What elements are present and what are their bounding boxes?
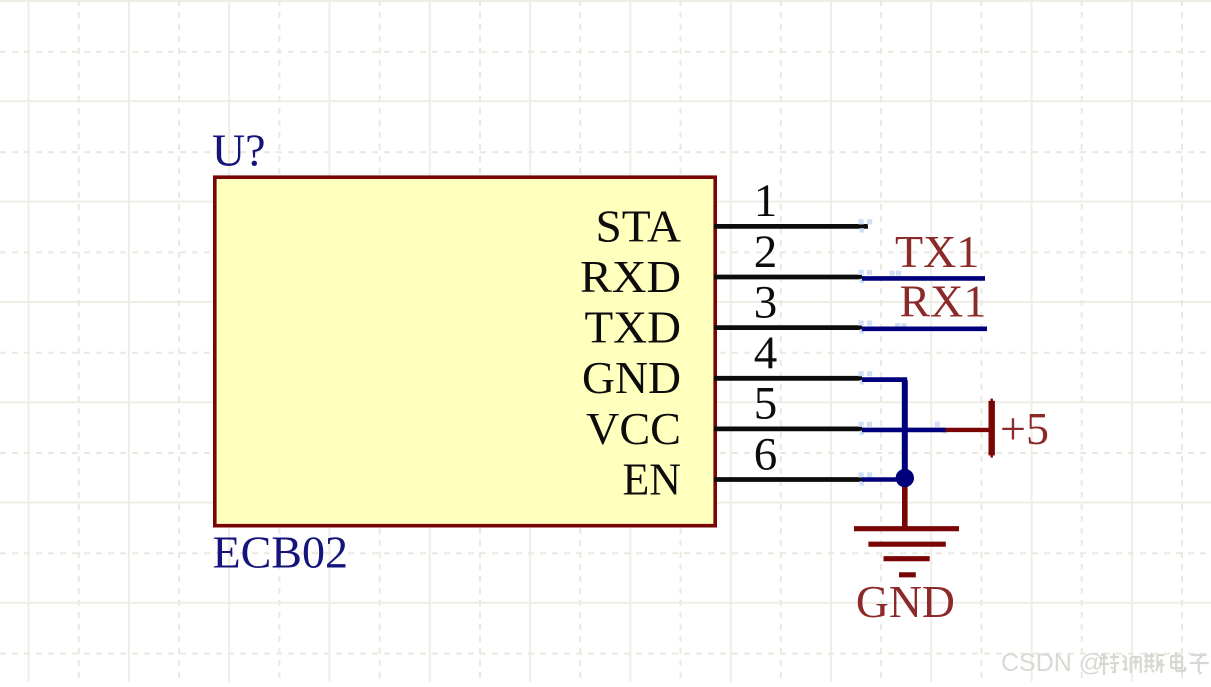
- svg-text:EN: EN: [623, 453, 682, 504]
- wire end marker VCC to +5: [935, 422, 940, 427]
- pin 6 wire: [714, 477, 862, 482]
- svg-text:RX1: RX1: [900, 276, 987, 327]
- svg-text:+5: +5: [1000, 403, 1049, 454]
- svg-text:TXD: TXD: [585, 302, 682, 353]
- component U? body (ECB02 module): [215, 177, 715, 526]
- junction dot: [896, 469, 914, 487]
- pin 4 wire: [714, 376, 862, 381]
- wire end marker pin 2: [859, 270, 864, 275]
- wire mid marker net TX1: [890, 271, 895, 276]
- wire end marker pin 3: [859, 320, 864, 325]
- ground symbol bar 3: [884, 556, 930, 561]
- svg-text:3: 3: [754, 276, 778, 328]
- power port +5 bar: [989, 401, 995, 456]
- pin 3 wire: [714, 325, 862, 330]
- svg-text:2: 2: [754, 226, 778, 278]
- svg-text:GND: GND: [856, 576, 955, 627]
- wire EN pin 6 to junction: [862, 477, 905, 482]
- svg-text:GND: GND: [582, 352, 681, 403]
- svg-text:STA: STA: [596, 200, 682, 251]
- svg-text:6: 6: [754, 428, 778, 480]
- svg-text:ECB02: ECB02: [213, 527, 348, 578]
- wire VCC pin 5: [862, 428, 946, 433]
- wire GND pin 4 to vertical bus: [862, 380, 905, 478]
- wire end marker pin 6: [859, 472, 864, 477]
- svg-text:U?: U?: [212, 125, 266, 176]
- wire mid marker net RX1: [895, 323, 900, 328]
- ground symbol bar 4: [899, 572, 916, 577]
- ground symbol bar 2: [868, 542, 945, 547]
- ground symbol bar 1: [854, 526, 959, 531]
- svg-text:1: 1: [754, 175, 778, 227]
- wire net RX1 (pin 3): [862, 326, 987, 331]
- svg-text:TX1: TX1: [895, 226, 979, 277]
- wire net TX1 (pin 2): [862, 276, 985, 281]
- wire end marker pin 5: [859, 422, 864, 427]
- pin 5 wire: [714, 426, 862, 431]
- svg-text:RXD: RXD: [580, 251, 681, 302]
- svg-text:5: 5: [754, 378, 778, 430]
- svg-text:CSDN @: CSDN @: [1001, 649, 1104, 677]
- pin 2 wire: [714, 275, 862, 280]
- wire end marker pin 1: [859, 219, 864, 224]
- wire end marker pin 4: [859, 371, 864, 376]
- svg-text:VCC: VCC: [586, 403, 681, 454]
- wire vertical GND net: [902, 380, 908, 479]
- watermark CJK glyphs: [1099, 653, 1119, 675]
- svg-text:4: 4: [754, 327, 778, 379]
- pin 1 wire: [714, 224, 868, 229]
- ground stem wire: [902, 478, 908, 531]
- wire +5 power (red): [946, 428, 990, 432]
